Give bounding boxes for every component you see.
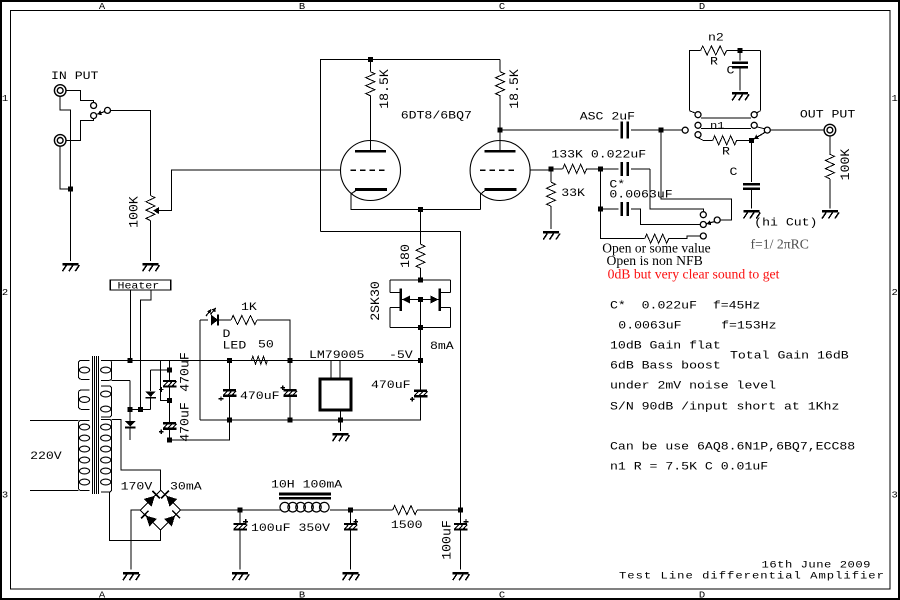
svg-text:6DT8/6BQ7: 6DT8/6BQ7 xyxy=(401,109,472,122)
svg-text:under 2mV noise level: under 2mV noise level xyxy=(610,379,776,392)
svg-text:2: 2 xyxy=(2,288,8,298)
svg-text:100K: 100K xyxy=(127,196,142,228)
svg-text:18.5K: 18.5K xyxy=(507,69,522,109)
svg-text:Test Line differential Amplifi: Test Line differential Amplifier xyxy=(619,571,885,582)
svg-text:D: D xyxy=(699,2,705,12)
svg-text:D: D xyxy=(699,590,705,600)
svg-text:R: R xyxy=(710,55,718,68)
svg-text:0dB but very clear sound to ge: 0dB but very clear sound to get xyxy=(608,267,780,282)
svg-text:470uF: 470uF xyxy=(371,379,411,392)
svg-text:LED: LED xyxy=(222,339,246,352)
svg-text:1: 1 xyxy=(2,94,8,104)
svg-text:f=1/ 2πRC: f=1/ 2πRC xyxy=(751,237,809,252)
svg-text:2SK30: 2SK30 xyxy=(368,281,383,321)
svg-text:10H 100mA: 10H 100mA xyxy=(271,478,343,491)
svg-text:100uF 350V: 100uF 350V xyxy=(251,522,331,535)
svg-text:470uF: 470uF xyxy=(240,390,280,403)
svg-text:C: C xyxy=(499,2,505,12)
svg-text:2: 2 xyxy=(891,288,897,298)
svg-text:A: A xyxy=(99,2,105,12)
svg-text:n1: n1 xyxy=(710,121,725,132)
svg-text:n1 R = 7.5K C 0.01uF: n1 R = 7.5K C 0.01uF xyxy=(610,460,768,473)
svg-text:(hi Cut): (hi Cut) xyxy=(754,216,817,229)
svg-text:C: C xyxy=(730,166,738,179)
svg-text:10dB Gain flat: 10dB Gain flat xyxy=(610,339,721,352)
svg-text:1500: 1500 xyxy=(391,519,423,532)
svg-text:n2: n2 xyxy=(708,32,724,45)
svg-text:8mA: 8mA xyxy=(430,340,454,353)
svg-text:1: 1 xyxy=(891,94,897,104)
svg-text:6dB Bass boost: 6dB Bass boost xyxy=(610,359,721,372)
svg-text:220V: 220V xyxy=(30,450,62,463)
svg-text:C: C xyxy=(499,590,505,600)
svg-text:33K: 33K xyxy=(561,187,585,200)
svg-text:133K 0.022uF: 133K 0.022uF xyxy=(551,148,646,161)
svg-text:100K: 100K xyxy=(838,149,853,181)
svg-text:470uF: 470uF xyxy=(177,402,192,442)
svg-text:C* 0.022uF f=45Hz: C* 0.022uF f=45Hz xyxy=(610,299,760,312)
svg-text:-5V: -5V xyxy=(389,349,413,362)
svg-text:16th June 2009: 16th June 2009 xyxy=(762,560,871,571)
svg-text:3: 3 xyxy=(891,490,897,500)
svg-text:S/N 90dB /input short at 1Khz: S/N 90dB /input short at 1Khz xyxy=(610,400,839,413)
svg-text:18.5K: 18.5K xyxy=(377,69,392,109)
svg-text:170V: 170V xyxy=(121,480,153,493)
svg-text:Heater: Heater xyxy=(117,281,159,292)
svg-text:ASC 2uF: ASC 2uF xyxy=(580,110,635,123)
svg-text:3: 3 xyxy=(2,490,8,500)
svg-text:B: B xyxy=(299,2,305,12)
svg-text:Open is non NFB: Open is non NFB xyxy=(607,253,703,268)
svg-text:Can be use 6AQ8.6N1P,6BQ7,ECC8: Can be use 6AQ8.6N1P,6BQ7,ECC88 xyxy=(610,440,855,453)
svg-text:180: 180 xyxy=(398,244,413,268)
svg-text:0.0063uF f=153Hz: 0.0063uF f=153Hz xyxy=(618,319,776,332)
svg-text:100uF: 100uF xyxy=(440,520,455,560)
svg-text:B: B xyxy=(299,590,305,600)
svg-text:Total Gain 16dB: Total Gain 16dB xyxy=(730,349,849,362)
svg-text:R: R xyxy=(722,145,730,158)
svg-text:470uF: 470uF xyxy=(177,352,192,392)
svg-text:IN PUT: IN PUT xyxy=(51,70,98,83)
svg-text:1K: 1K xyxy=(241,301,258,314)
svg-text:LM79005: LM79005 xyxy=(309,349,364,362)
svg-text:A: A xyxy=(99,590,105,600)
svg-text:50: 50 xyxy=(258,338,274,351)
svg-text:OUT PUT: OUT PUT xyxy=(800,108,855,121)
svg-text:30mA: 30mA xyxy=(170,480,202,493)
